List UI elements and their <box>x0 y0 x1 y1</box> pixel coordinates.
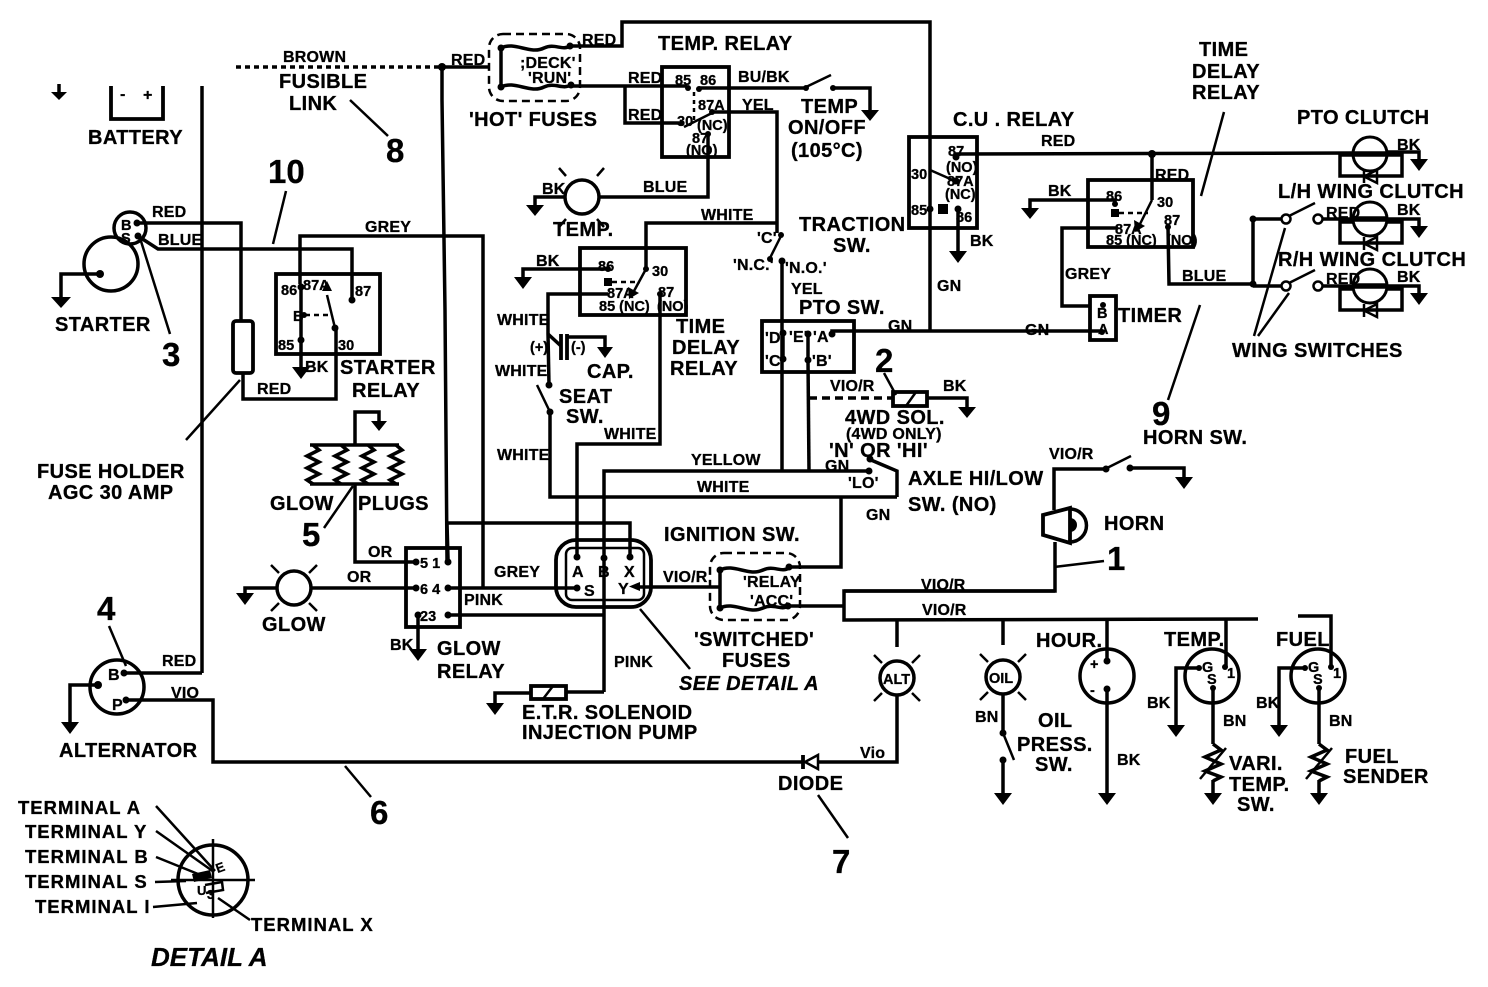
svg-text:BU/BK: BU/BK <box>738 69 790 86</box>
svg-text:'RELAY: 'RELAY <box>743 574 801 591</box>
svg-text:3: 3 <box>207 887 214 902</box>
bus VIO/R (top line from horn) <box>844 591 1258 620</box>
starter solenoid terminals B/S <box>114 212 146 247</box>
wire BK: TDR2 86 left to ground <box>1030 200 1115 208</box>
wire RED: alternator B to main vertical <box>124 671 202 675</box>
svg-text:SW. (NO): SW. (NO) <box>908 494 997 516</box>
wire BK: temp gauge G to ground <box>1176 668 1199 725</box>
wire: fuse input link <box>718 570 722 608</box>
svg-text:Vio: Vio <box>860 745 885 762</box>
ground (TDR2 86) <box>1021 208 1039 219</box>
fuel gauge G2 <box>1291 649 1345 703</box>
svg-text:TIME: TIME <box>1199 39 1248 61</box>
svg-text:GREY: GREY <box>1065 266 1111 283</box>
svg-text:TIME: TIME <box>676 316 725 338</box>
wire: horn switch to ground <box>1130 468 1184 477</box>
svg-text:'B': 'B' <box>812 353 832 370</box>
temp on/off switch S1 <box>803 75 836 91</box>
wing switch RH <box>1282 270 1353 291</box>
pointer terminal Y <box>156 831 214 872</box>
wire RED: CU 87 to PTO clutch <box>956 153 1353 157</box>
wire WHITE: seat sw to axle bus <box>550 412 897 497</box>
svg-text:IGNITION SW.: IGNITION SW. <box>664 524 800 546</box>
wire: battery main vertical (red feed) <box>200 86 204 673</box>
glow plugs R1-R4 <box>307 445 402 484</box>
svg-text:TERMINAL X: TERMINAL X <box>251 914 374 935</box>
svg-text:TEMP. RELAY: TEMP. RELAY <box>658 33 793 55</box>
switched fuses wavy fuse ACC <box>717 603 792 612</box>
svg-text:VIO/R: VIO/R <box>1049 446 1094 463</box>
svg-text:ALTERNATOR: ALTERNATOR <box>59 740 198 762</box>
wire: feed branch to ignition X <box>445 523 630 557</box>
svg-text:VIO/R: VIO/R <box>830 378 875 395</box>
ground (LH clutch) <box>1410 226 1428 238</box>
svg-text:TERMINAL B: TERMINAL B <box>25 846 149 867</box>
svg-text:SW.: SW. <box>1035 754 1073 776</box>
svg-text:30: 30 <box>1157 195 1173 211</box>
ground (vari temp sw) <box>1204 793 1222 805</box>
OIL lamp (circle with rays) <box>980 654 1026 700</box>
wire GN: PTO B down to axle line <box>808 360 809 471</box>
node: red branch junction <box>1148 150 1156 158</box>
wire: glow plugs feed hook <box>355 412 379 445</box>
svg-text:TERMINAL A: TERMINAL A <box>18 797 141 818</box>
arrow (feed) <box>371 421 387 431</box>
ground (capacitor) <box>597 347 613 358</box>
wire GN: white line junction down to switched fuses <box>789 497 841 567</box>
wire: alternator case to ground <box>70 685 98 722</box>
temp sensor (circle with rays) <box>559 168 604 227</box>
svg-text:X: X <box>624 564 635 581</box>
svg-text:BK: BK <box>1397 269 1421 286</box>
wire VIO/R dashed: PTO B vertical to 4WD solenoid <box>809 396 893 400</box>
svg-text:RELAY: RELAY <box>670 358 738 380</box>
wire: OIL lamp drop <box>1001 620 1005 645</box>
fuse holder F1 (AGC 30A) <box>233 321 253 373</box>
svg-text:BK: BK <box>1117 752 1141 769</box>
axle switch: LO contact <box>866 468 873 475</box>
wire PINK: down to ETR fuse <box>566 690 604 694</box>
TDR coil B <box>604 278 612 286</box>
svg-text:ALT: ALT <box>883 672 910 688</box>
svg-text:GREY: GREY <box>365 219 411 236</box>
wing switch LH <box>1253 203 1352 224</box>
wire: temp switch to ground <box>833 88 870 110</box>
svg-text:RED: RED <box>1041 133 1075 150</box>
svg-text:FUSE HOLDER: FUSE HOLDER <box>37 461 185 483</box>
svg-text:1: 1 <box>1333 666 1341 682</box>
svg-text:6 4: 6 4 <box>420 582 440 598</box>
svg-text:(-): (-) <box>571 340 586 356</box>
diode D1 <box>803 755 818 769</box>
pointer terminal B <box>156 857 203 876</box>
C.U. relay K4 box <box>909 137 977 228</box>
ETR fuse F2 <box>531 686 566 699</box>
temp relay coil dashed link <box>693 92 696 120</box>
wire BLUE: TDR2 87 down to wing switches <box>1168 227 1253 284</box>
svg-text:CAP.: CAP. <box>587 361 634 383</box>
pointer terminal X <box>218 898 250 920</box>
svg-text:(NO): (NO) <box>1166 233 1198 249</box>
svg-text:PINK: PINK <box>614 654 653 671</box>
ignition switch inner <box>566 548 644 600</box>
svg-text:85: 85 <box>278 338 294 354</box>
svg-text:BK: BK <box>542 181 566 198</box>
svg-text:SEAT: SEAT <box>559 386 612 408</box>
svg-text:E.T.R. SOLENOID: E.T.R. SOLENOID <box>522 702 692 724</box>
wire: oil press sw to ground <box>1001 760 1005 793</box>
ground (ETR) <box>486 703 504 715</box>
svg-text:'E': 'E' <box>789 329 808 346</box>
ground (CU 86) <box>949 251 967 263</box>
wire: PTO E to B internal <box>806 334 810 360</box>
svg-text:FUEL: FUEL <box>1345 746 1399 768</box>
wire BK: CU 86 to ground <box>956 209 960 251</box>
wire GREY: starter relay 86 bus to glow relay <box>300 236 483 588</box>
wire BLUE: temp relay 87 to temp sensor <box>600 134 708 197</box>
detail A connector circle <box>171 839 255 918</box>
svg-text:'D: 'D <box>765 330 781 347</box>
svg-text:BK: BK <box>536 253 560 270</box>
svg-text:FUSES: FUSES <box>722 650 791 672</box>
wire: hour meter drop <box>1105 620 1109 661</box>
temp relay K2 box <box>662 67 729 157</box>
TDR blade + 87A arrow <box>634 269 646 291</box>
starter motor M <box>84 237 138 291</box>
svg-text:RED: RED <box>628 107 662 124</box>
ignition pin S <box>574 585 581 592</box>
svg-text:'LO': 'LO' <box>848 475 879 492</box>
svg-text:B: B <box>1097 306 1107 322</box>
svg-text:RED: RED <box>162 653 196 670</box>
svg-text:PLUGS: PLUGS <box>358 493 429 515</box>
svg-text:S: S <box>584 583 595 600</box>
svg-text:6: 6 <box>370 794 388 831</box>
wire BK: RH clutch ground <box>1388 286 1419 293</box>
svg-text:4: 4 <box>97 590 116 627</box>
wire RED: hot fuses to top bus to C.U. relay <box>570 22 930 170</box>
horn H1 (speaker symbol) <box>1043 508 1086 543</box>
svg-text:SENDER: SENDER <box>1343 766 1429 788</box>
wire RED: fuse holder to starter relay 30 <box>243 328 336 399</box>
wire YEL: temp relay 87A to traction sw C <box>712 112 777 233</box>
svg-text:RED: RED <box>451 52 485 69</box>
'HOT' fuses FB1 dashed box <box>489 34 580 101</box>
vari temp switch RT1 (zigzag with slash) <box>1200 744 1226 781</box>
wire: temp gauge drop <box>1224 619 1228 667</box>
svg-text:B: B <box>108 667 120 684</box>
svg-text:RELAY: RELAY <box>437 661 505 683</box>
wire: PTO D to C internal <box>781 333 785 359</box>
svg-text:'N.O.': 'N.O.' <box>785 260 827 277</box>
ground (alternator) <box>61 722 79 734</box>
pointer 6 <box>345 766 371 797</box>
wire BK: LH clutch ground <box>1388 219 1419 226</box>
4WD solenoid L1 <box>893 392 927 406</box>
wire GREY: glow relay 4 to ignition S <box>448 586 577 590</box>
wire BK: 4wd sol to ground <box>927 398 967 407</box>
traction switch blade <box>770 236 781 258</box>
svg-text:TERMINAL S: TERMINAL S <box>25 871 148 892</box>
svg-text:A: A <box>572 564 584 581</box>
wire: horn bottom to bus <box>844 542 1055 591</box>
wire: vari temp sw to ground <box>1211 780 1215 793</box>
wire GN: PTO A to timer A <box>832 331 1102 334</box>
svg-text:SEE DETAIL A: SEE DETAIL A <box>679 673 819 695</box>
wire: N.O. through D down to yellow line <box>780 333 784 471</box>
pointer 7 <box>818 795 848 838</box>
pointer terminal A <box>156 806 215 871</box>
svg-text:5: 5 <box>302 516 320 553</box>
svg-text:VARI.: VARI. <box>1229 753 1283 775</box>
ground (PTO clutch) <box>1410 159 1428 171</box>
svg-text:30: 30 <box>338 338 354 354</box>
svg-text:WHITE: WHITE <box>604 426 657 443</box>
pointer 3 <box>140 238 170 334</box>
svg-text:30: 30 <box>652 264 668 280</box>
ground (top-left) <box>51 84 67 100</box>
wire: wing switch common vertical <box>1251 219 1255 284</box>
svg-text:VIO: VIO <box>171 685 199 702</box>
wire: glow relay 1 up to feed <box>447 523 448 562</box>
wire: glow lamp to ground <box>245 588 277 593</box>
svg-text:RED: RED <box>257 381 291 398</box>
svg-text:YELLOW: YELLOW <box>691 452 761 469</box>
svg-text:WHITE: WHITE <box>701 207 754 224</box>
time delay relay K5 box (right) <box>1088 180 1193 247</box>
alternator A1 <box>90 660 144 714</box>
pointer to 8 <box>350 100 388 136</box>
svg-text:DELAY: DELAY <box>1192 61 1260 83</box>
wire YELLOW: ignition B up and right to axle LO <box>604 471 869 558</box>
svg-text:TEMP.: TEMP. <box>553 219 614 241</box>
svg-text:BLUE: BLUE <box>643 179 687 196</box>
wire: ALT lamp drop <box>895 620 899 647</box>
wire RED: hot fuses to temp relay 85 <box>571 84 687 88</box>
svg-text:TERMINAL I: TERMINAL I <box>35 896 151 917</box>
wire BU/BK: temp relay 86 to temp switch <box>699 86 804 90</box>
svg-text:5 1: 5 1 <box>420 556 440 572</box>
pointer 1 <box>1054 561 1104 567</box>
svg-text:L/H WING CLUTCH: L/H WING CLUTCH <box>1278 181 1464 203</box>
svg-text:WHITE: WHITE <box>497 312 550 329</box>
svg-text:30: 30 <box>911 167 927 183</box>
wire: fusible link (brown, dashed) <box>236 65 441 69</box>
pointer 9 <box>1168 305 1200 400</box>
svg-text:PTO SW.: PTO SW. <box>799 297 885 319</box>
svg-text:BN: BN <box>1329 713 1353 730</box>
wire BN: temp gauge S to vari temp sw <box>1211 688 1215 744</box>
svg-text:'RUN': 'RUN' <box>528 70 571 87</box>
svg-text:YEL: YEL <box>742 97 774 114</box>
wire BK: hour meter to ground <box>1105 689 1109 793</box>
pointer: time delay relay <box>1201 112 1224 196</box>
pointer terminal I <box>153 903 197 907</box>
svg-text:'ACC': 'ACC' <box>750 593 793 610</box>
pointer 5 <box>324 486 353 528</box>
pointer terminal S <box>155 881 186 882</box>
fuel sender RT2 (zigzag with slash) <box>1306 744 1332 781</box>
svg-text:TRACTION: TRACTION <box>799 214 906 236</box>
svg-text:STARTER: STARTER <box>55 314 151 336</box>
svg-text:WHITE: WHITE <box>697 479 750 496</box>
svg-text:WHITE: WHITE <box>495 363 548 380</box>
oil pressure switch S6 <box>1000 730 1015 764</box>
svg-text:8: 8 <box>386 132 404 169</box>
wire: diode to alternator line <box>128 700 802 762</box>
svg-text:BLUE: BLUE <box>158 232 202 249</box>
svg-text:OR: OR <box>368 544 393 561</box>
svg-text:85 (NC): 85 (NC) <box>599 299 650 315</box>
svg-text:-: - <box>1090 683 1095 699</box>
svg-text:BLUE: BLUE <box>1182 268 1226 285</box>
svg-text:3: 3 <box>162 336 180 373</box>
svg-text:'C': 'C' <box>757 230 777 247</box>
ground (temp switch) <box>861 110 879 121</box>
svg-text:+: + <box>1090 657 1098 673</box>
wire VIO/R: ACC to bus <box>788 604 843 608</box>
wire WHITE: TDR 87A to seat switch <box>548 294 608 334</box>
svg-text:GN: GN <box>937 278 961 295</box>
svg-text:WING SWITCHES: WING SWITCHES <box>1232 340 1403 362</box>
svg-text:10: 10 <box>268 153 305 190</box>
wire BK: TDR 86 to ground <box>523 269 608 277</box>
wire OR: glow plugs to glow relay 5 <box>355 484 415 562</box>
svg-text:1: 1 <box>1227 666 1235 682</box>
ground (hour meter) <box>1098 793 1116 805</box>
ALT lamp (circle with rays) <box>874 655 920 701</box>
svg-text:OR: OR <box>347 569 372 586</box>
svg-text:OIL: OIL <box>989 671 1013 687</box>
svg-text:GN: GN <box>888 318 912 335</box>
ground (fuel gauge) <box>1270 725 1288 737</box>
svg-text:WHITE: WHITE <box>497 447 550 464</box>
svg-text:PTO CLUTCH: PTO CLUTCH <box>1297 107 1430 129</box>
PTO clutch coil <box>1340 137 1402 183</box>
wire RED: branch to temp relay 30 <box>625 86 683 123</box>
svg-text:U: U <box>197 883 206 898</box>
wire VIO/R: horn top to horn switch <box>1054 469 1103 510</box>
ignition pin B <box>601 555 608 562</box>
svg-text:86: 86 <box>281 283 297 299</box>
svg-text:INJECTION PUMP: INJECTION PUMP <box>522 722 698 744</box>
wire: starter to ground <box>61 274 100 297</box>
wire BLUE: starter S to starter relay 87 <box>141 238 352 288</box>
svg-text:RELAY: RELAY <box>352 380 420 402</box>
axle switch: N contact <box>867 456 874 463</box>
svg-text:BK: BK <box>1397 137 1421 154</box>
ground (starter relay 85) <box>292 367 310 379</box>
time delay relay K3 box <box>580 248 686 315</box>
svg-text:-: - <box>120 86 126 103</box>
wire WHITE: traction sw to time delay relay 30 <box>646 223 777 269</box>
svg-text:7: 7 <box>832 843 850 880</box>
node: RH junction <box>1250 281 1257 288</box>
ground (4wd sol) <box>958 407 976 418</box>
svg-text:TERMINAL Y: TERMINAL Y <box>25 821 147 842</box>
R/H wing clutch coil <box>1340 269 1402 317</box>
pointer 10 <box>273 191 286 244</box>
wire RED: branch down to TDR2 30 <box>1150 154 1154 200</box>
svg-text:GLOW: GLOW <box>437 638 501 660</box>
svg-text:+: + <box>143 87 153 104</box>
svg-text:SW.: SW. <box>1237 794 1275 816</box>
svg-text:PRESS.: PRESS. <box>1017 734 1093 756</box>
svg-text:'SWITCHED': 'SWITCHED' <box>694 629 814 651</box>
ground (oil press sw) <box>994 793 1012 805</box>
svg-text:YEL: YEL <box>791 281 823 298</box>
svg-text:PINK: PINK <box>464 592 503 609</box>
pointer 4 <box>109 626 126 666</box>
starter relay K1 box <box>276 274 380 354</box>
L/H wing clutch coil <box>1340 202 1402 250</box>
svg-text:VIO/R: VIO/R <box>921 577 966 594</box>
svg-text:ON/OFF: ON/OFF <box>788 117 866 139</box>
svg-text:C.U . RELAY: C.U . RELAY <box>953 109 1075 131</box>
wire RED: junction to hot fuses <box>442 65 490 69</box>
'SWITCHED' fuses FB2 dashed box <box>710 553 800 620</box>
wire WHITE: TDR 87 to ignition A <box>577 294 660 557</box>
svg-text:BK: BK <box>390 637 414 654</box>
glow lamp (circle with rays) <box>271 565 317 611</box>
CU coil <box>938 204 948 214</box>
wire: fuel sender to ground <box>1317 780 1321 793</box>
temp gauge G1 <box>1185 649 1239 703</box>
svg-text:TEMP.: TEMP. <box>1229 774 1290 796</box>
wire VIO/R: ignition Y to switched fuses <box>640 585 720 589</box>
svg-text:STARTER: STARTER <box>340 357 436 379</box>
ground (glow relay) <box>409 649 427 661</box>
svg-text:HORN SW.: HORN SW. <box>1143 427 1247 449</box>
svg-text:HORN: HORN <box>1104 513 1165 535</box>
svg-text:(+): (+) <box>530 340 548 356</box>
TDR2 coil B <box>1111 209 1119 217</box>
horn switch S4 <box>1103 456 1134 473</box>
svg-text:RELAY: RELAY <box>1192 82 1260 104</box>
axle switch blade + common <box>871 460 897 497</box>
wire GREY: TDR2 87A to timer B <box>1062 228 1117 306</box>
svg-text:'A: 'A <box>813 329 829 346</box>
hour meter M1 <box>1080 649 1134 703</box>
svg-text:'C: 'C <box>765 353 781 370</box>
switched fuses wavy fuse RELAY <box>717 564 793 574</box>
wire: fuel gauge feed bracket <box>1298 616 1331 667</box>
PTO switch S3 box <box>762 321 854 372</box>
svg-text:(NO): (NO) <box>686 143 718 159</box>
svg-text:85 (NC): 85 (NC) <box>1106 233 1157 249</box>
svg-text:AGC 30 AMP: AGC 30 AMP <box>48 482 174 504</box>
svg-text:(105°C): (105°C) <box>791 140 863 162</box>
battery BAT1 <box>111 86 163 119</box>
wire: seat sw upper lead <box>548 334 549 385</box>
wire: fusible link vertical feed to ignition <box>442 67 447 560</box>
timer U1 box <box>1090 296 1116 340</box>
ground (horn switch) <box>1175 477 1193 489</box>
svg-text:DIODE: DIODE <box>778 773 843 795</box>
svg-text:RED: RED <box>152 204 186 221</box>
svg-text:GLOW: GLOW <box>270 493 334 515</box>
wire: ETR fuse to ground <box>495 693 531 703</box>
wire: ALT lamp down to diode line <box>817 695 897 762</box>
wire BK: glow relay 2 to ground <box>416 615 420 649</box>
pointer: see detail A <box>640 609 690 669</box>
svg-text:(NC): (NC) <box>945 187 976 203</box>
svg-text:TIMER: TIMER <box>1118 305 1182 327</box>
svg-text:GN: GN <box>825 458 849 475</box>
svg-text:1: 1 <box>1107 540 1125 577</box>
svg-text:SW.: SW. <box>566 406 604 428</box>
pointer: fuse holder label <box>186 380 240 440</box>
